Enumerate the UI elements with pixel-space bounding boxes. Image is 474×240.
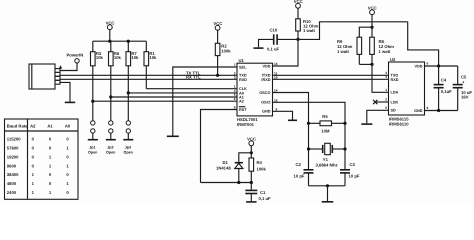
wire VCC to R9/R8 tops	[371, 15, 373, 28]
svg-text:IRMS6110: IRMS6110	[389, 122, 409, 127]
resistor R7	[126, 41, 139, 66]
resistor R8	[370, 27, 394, 64]
op IC U1 HSDL7001	[237, 58, 273, 127]
wire U2 SD to ground	[367, 110, 389, 123]
svg-text:SEL: SEL	[239, 65, 247, 69]
wire R3 to Jp1 (A2 net vertical)	[92, 66, 94, 121]
svg-text:Open: Open	[88, 151, 98, 155]
wire VCC rail to U2 VDD	[408, 22, 439, 66]
svg-text:8: 8	[234, 106, 236, 110]
ground (crystal)	[322, 201, 334, 203]
ground (U1 GND)	[288, 119, 297, 121]
capacitor C4	[434, 66, 453, 111]
svg-text:PowerIN: PowerIN	[67, 53, 84, 58]
capacitor C1	[245, 183, 271, 202]
svg-text:C4: C4	[441, 77, 447, 82]
wire OSCI net below C3	[344, 174, 346, 186]
wire IRXD net (U1 to U2)	[273, 78, 389, 80]
resistor R2	[215, 30, 231, 75]
node A0	[127, 91, 130, 94]
ground (C10)	[254, 47, 264, 49]
svg-text:U1: U1	[239, 58, 245, 63]
svg-text:0,1 uF: 0,1 uF	[267, 46, 280, 51]
svg-text:16V: 16V	[461, 94, 469, 99]
svg-text:8: 8	[427, 106, 429, 110]
node R8 bottom	[370, 63, 373, 66]
svg-text:Open: Open	[124, 151, 134, 155]
ground (connector pin 4)	[65, 101, 75, 103]
supply VCC (reset)	[249, 141, 254, 146]
svg-text:5: 5	[385, 106, 387, 110]
svg-text:VCC: VCC	[294, 0, 303, 4]
svg-text:2400: 2400	[7, 190, 17, 195]
supply VCC (R10 top)	[296, 3, 301, 8]
wire U2 VDD to caps	[425, 65, 458, 67]
wire OSCI net	[273, 102, 346, 169]
wire branch to D1	[239, 153, 252, 162]
svg-text:10M: 10M	[321, 128, 330, 133]
wire R6 to Jp2 (A1 net vertical)	[110, 66, 112, 121]
wire CLK net	[146, 88, 237, 90]
svg-text:15: 15	[274, 98, 278, 102]
svg-text:LDK: LDK	[391, 100, 399, 104]
svg-text:A1: A1	[47, 123, 53, 128]
svg-text:115200: 115200	[7, 137, 21, 142]
svg-text:10k: 10k	[149, 55, 157, 60]
svg-text:IRXD: IRXD	[261, 78, 270, 82]
svg-text:VDD: VDD	[262, 64, 270, 68]
wire U1 RST net	[201, 110, 238, 183]
svg-text:C3: C3	[350, 162, 356, 167]
wire U2 GND to caps	[425, 110, 458, 112]
wire U1 VDD net	[273, 41, 299, 66]
node rail-R7	[127, 40, 130, 43]
resistor R9	[337, 27, 372, 64]
svg-text:Baud Rate: Baud Rate	[7, 123, 28, 128]
node D1 bottom	[237, 181, 240, 184]
svg-text:C2: C2	[296, 162, 302, 167]
wire A0 net	[128, 92, 237, 94]
wire TX TTL (connector pin2 to U1 TXD)	[60, 74, 237, 76]
svg-text:IRM7001: IRM7001	[237, 122, 255, 127]
svg-text:100k: 100k	[257, 166, 267, 171]
svg-text:U2: U2	[390, 57, 396, 62]
wire VCC stem	[109, 30, 111, 42]
node GND-C4	[437, 109, 440, 112]
supply VCC (pull-up rail)	[107, 25, 112, 30]
wire U1 GND	[273, 111, 293, 119]
svg-text:1 watt: 1 watt	[379, 49, 391, 54]
resistor R3	[91, 41, 104, 66]
capacitor C10	[259, 27, 299, 51]
svg-text:9600: 9600	[7, 163, 17, 168]
wire VCC to D1/R4	[250, 146, 252, 153]
svg-text:SD: SD	[391, 109, 397, 113]
svg-text:10k: 10k	[114, 55, 122, 60]
wire RX TTL (connector pin3 to U1 RXD)	[60, 78, 237, 80]
resistor R10	[296, 8, 319, 39]
node OSCO-R5	[307, 122, 310, 125]
baud rate table	[5, 119, 79, 199]
node R4 bottom	[250, 181, 253, 184]
wire OSCO net	[273, 93, 309, 170]
capacitor C3	[340, 162, 360, 178]
svg-text:7: 7	[234, 63, 236, 67]
svg-text:19200: 19200	[7, 154, 19, 159]
wire pin4 to ground	[60, 82, 70, 101]
svg-text:R5: R5	[322, 114, 328, 119]
node A2	[91, 100, 94, 103]
wire ITXD net (U1 to U2)	[273, 74, 389, 76]
diode D1 1N4148	[216, 160, 243, 182]
svg-text:Open: Open	[106, 151, 116, 155]
node A1	[109, 95, 112, 98]
svg-text:GND: GND	[262, 110, 271, 114]
resistor R6	[109, 41, 122, 66]
svg-text:10k: 10k	[96, 55, 104, 60]
svg-text:4800: 4800	[7, 181, 17, 186]
svg-text:1: 1	[385, 88, 387, 92]
svg-text:2: 2	[385, 98, 387, 102]
node OSCO-Y1	[307, 147, 310, 150]
svg-text:3: 3	[234, 75, 236, 79]
connector X1	[29, 64, 60, 89]
node VCC-D1	[250, 151, 253, 154]
svg-text:RST: RST	[239, 108, 247, 112]
node OSCI-R5	[343, 122, 346, 125]
ground (C1)	[246, 201, 256, 203]
wire U2 LDK stub (no connect)	[376, 101, 389, 103]
svg-text:9: 9	[276, 107, 278, 111]
svg-text:10 pF: 10 pF	[349, 174, 360, 179]
jumper Jp1	[88, 121, 98, 155]
wire crystal bottom rail	[309, 185, 346, 187]
svg-text:VCC: VCC	[368, 6, 377, 11]
svg-text:A2: A2	[239, 100, 244, 104]
svg-text:16: 16	[274, 62, 278, 66]
ground (SEL)	[167, 135, 179, 137]
svg-text:10k: 10k	[131, 55, 139, 60]
svg-text:GND: GND	[414, 109, 423, 113]
node rail-R6	[108, 40, 111, 43]
svg-text:6: 6	[427, 62, 429, 66]
svg-text:LDA: LDA	[391, 91, 399, 95]
svg-text:R4: R4	[257, 160, 263, 165]
svg-text:A0: A0	[65, 123, 71, 128]
svg-text:1 watt: 1 watt	[337, 49, 349, 54]
svg-text:Jp2: Jp2	[107, 146, 113, 150]
node crystal gnd	[326, 184, 329, 187]
pin numbers U2	[385, 62, 428, 111]
supply VCC (R2)	[215, 25, 220, 30]
svg-text:10 pF: 10 pF	[294, 174, 305, 179]
node VDD-C4	[437, 64, 440, 67]
svg-text:Jp3: Jp3	[125, 146, 131, 150]
svg-text:0,1 uF: 0,1 uF	[259, 196, 272, 201]
svg-text:10: 10	[274, 75, 278, 79]
resistor R1	[144, 41, 157, 66]
svg-text:VCC: VCC	[247, 137, 256, 142]
wire R1 to CLK net	[145, 66, 147, 89]
svg-text:VCC: VCC	[106, 21, 115, 26]
svg-text:1 watt: 1 watt	[303, 28, 315, 33]
wire A2 net	[93, 100, 237, 102]
svg-text:VCC: VCC	[213, 21, 222, 26]
svg-text:C10: C10	[270, 27, 278, 32]
svg-text:4: 4	[385, 75, 387, 79]
svg-text:6: 6	[234, 97, 236, 101]
node R10 bottom	[296, 38, 299, 41]
pin numbers U1 left	[234, 63, 236, 110]
wire RST bottom rail	[201, 182, 252, 184]
wire R9 bottom to R8 bottom	[359, 63, 372, 65]
svg-text:100k: 100k	[221, 49, 231, 54]
svg-text:0,1uF: 0,1uF	[441, 89, 452, 94]
resistor R5	[309, 114, 346, 133]
pin 1 marker arrow	[59, 65, 62, 68]
wire SEL net	[173, 67, 237, 136]
pin numbers U1 right	[274, 62, 278, 111]
op IC U2 IRMS6115	[389, 57, 425, 127]
ground (U2 SD)	[361, 123, 372, 125]
node R8 top	[370, 26, 373, 29]
capacitor C5 (polarized)	[453, 66, 473, 111]
resistor R4	[249, 153, 266, 183]
svg-text:RXD: RXD	[391, 78, 399, 82]
wire R10 to VCC rail	[298, 22, 408, 40]
node OSCI-Y1	[343, 147, 346, 150]
PowerIN connector pad	[75, 59, 79, 63]
jumper Jp2	[106, 121, 116, 155]
jumper Jp3	[123, 121, 133, 155]
crystal Y1	[309, 143, 346, 167]
svg-text:57600: 57600	[7, 146, 19, 151]
no-connect X on LDK	[373, 100, 377, 104]
svg-text:1N4148: 1N4148	[216, 165, 231, 170]
svg-text:RX TTL: RX TTL	[186, 75, 201, 80]
wire to crystal ground	[327, 186, 329, 201]
svg-text:VDD: VDD	[414, 64, 422, 68]
capacitor C2	[294, 162, 314, 178]
svg-text:38400: 38400	[7, 172, 19, 177]
wire to U2 LDA	[372, 64, 389, 92]
wire A1 net	[111, 96, 237, 98]
wire pull-up rail	[93, 40, 147, 42]
svg-text:14: 14	[274, 89, 278, 93]
svg-text:C1: C1	[260, 190, 266, 195]
svg-text:OSCI: OSCI	[261, 101, 270, 105]
svg-text:OSCO: OSCO	[259, 91, 270, 95]
svg-text:Jp1: Jp1	[89, 146, 95, 150]
node R2-TXD	[216, 74, 219, 77]
svg-text:3,6864 Mhz: 3,6864 Mhz	[316, 162, 338, 167]
wire R7 to Jp3 (A0 net vertical)	[127, 66, 129, 121]
wire pin1 to PowerIN	[60, 63, 77, 71]
svg-text:A2: A2	[30, 123, 36, 128]
wire OSCO net below C2	[308, 174, 310, 186]
supply VCC (IR LED rail)	[370, 10, 375, 15]
svg-text:RXD: RXD	[239, 78, 247, 82]
